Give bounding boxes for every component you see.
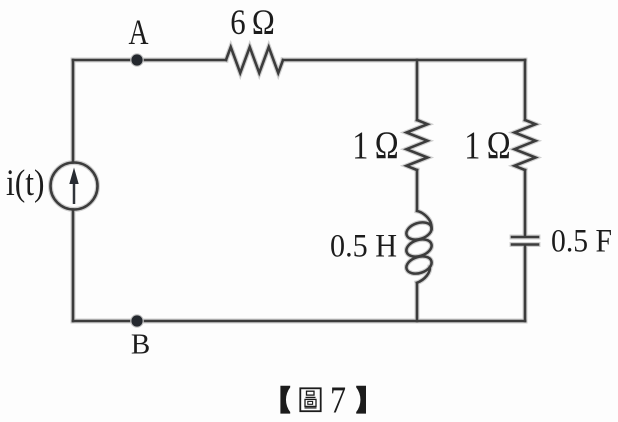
svg-text:7: 7 [330,380,346,422]
svg-text:i(t): i(t) [6,163,45,204]
svg-text:1 Ω: 1 Ω [464,123,511,167]
svg-text:1 Ω: 1 Ω [352,123,399,167]
svg-text:B: B [131,329,150,361]
svg-text:0.5 F: 0.5 F [551,224,612,260]
svg-text:6 Ω: 6 Ω [230,2,275,42]
svg-text:0.5 H: 0.5 H [330,229,397,265]
svg-text:A: A [129,12,149,52]
